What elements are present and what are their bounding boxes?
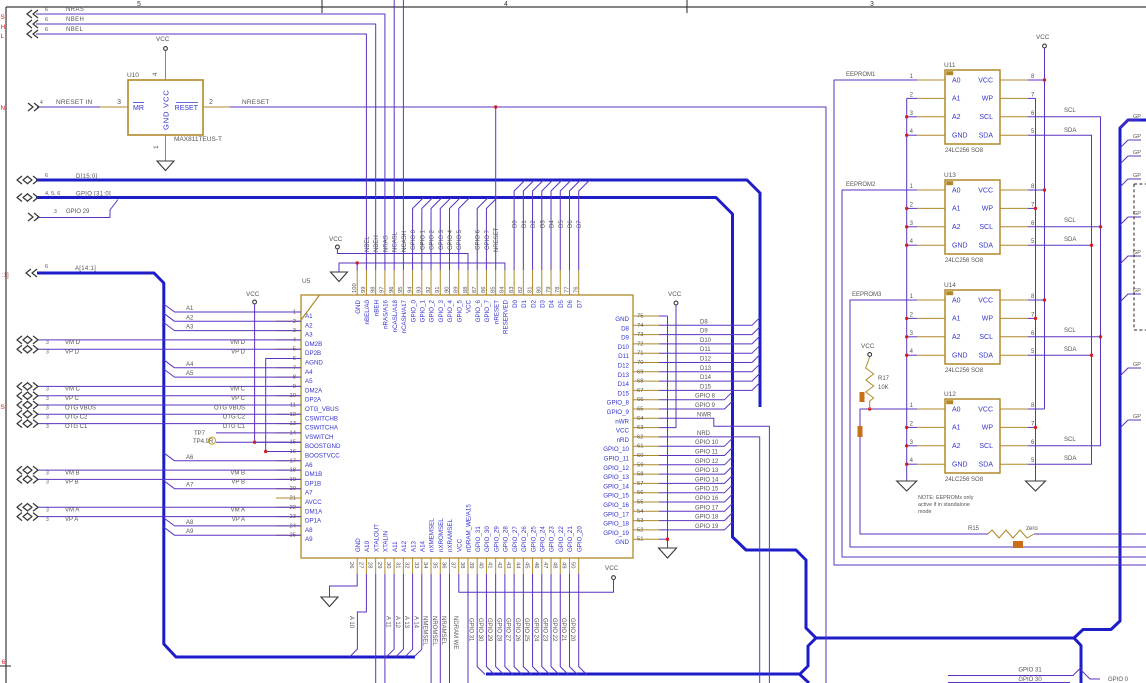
node strap junction [905, 225, 908, 228]
node vcc rail end [253, 441, 256, 444]
svg-text:24LC256 SO8: 24LC256 SO8 [945, 258, 984, 264]
svg-text:BOOSTGND: BOOSTGND [305, 443, 341, 450]
svg-text:72: 72 [637, 341, 643, 347]
svg-text:38: 38 [459, 562, 465, 568]
svg-text:NCASH: NCASH [402, 231, 408, 252]
wire A5 bus entry to U5 pin 8 [164, 369, 301, 377]
svg-text:80: 80 [537, 287, 543, 293]
wire NRESET from U10 pin2 to EEPROM column [230, 107, 826, 683]
wire SDA common [1028, 135, 1092, 464]
svg-text:VM A: VM A [65, 508, 79, 514]
svg-text:VCC: VCC [861, 343, 875, 350]
svg-text:NBEL: NBEL [365, 236, 371, 252]
svg-text:NDRAM WE: NDRAM WE [452, 616, 458, 649]
GPIO 29 chevrons [28, 213, 33, 221]
svg-text:A1: A1 [305, 313, 313, 320]
svg-text:D6: D6 [567, 299, 574, 307]
svg-text:75: 75 [637, 314, 643, 320]
svg-text:active if in standalone: active if in standalone [918, 502, 970, 508]
wire GPIO 30 entry bottom right [948, 682, 1070, 683]
svg-text:D9: D9 [621, 335, 629, 342]
svg-text:32: 32 [404, 562, 410, 568]
svg-text:3: 3 [117, 99, 121, 106]
svg-text:D0: D0 [512, 299, 519, 307]
svg-text:31: 31 [394, 562, 400, 568]
orange bar on A0 net [858, 426, 863, 437]
svg-text:5: 5 [137, 1, 141, 8]
svg-text:46: 46 [533, 562, 539, 568]
wire GPIO 0 entry bottom right [1081, 670, 1100, 679]
wire strap to eeprom pin [907, 97, 917, 99]
svg-text:D12: D12 [700, 357, 712, 363]
svg-text:3: 3 [46, 340, 49, 346]
svg-text:81: 81 [527, 287, 533, 293]
svg-text:GP: GP [1133, 150, 1141, 156]
svg-text:GPIO 13: GPIO 13 [695, 468, 719, 474]
svg-text:A0: A0 [952, 406, 961, 413]
wire U12 A0 net with R15 [860, 409, 988, 534]
node R17 junction [868, 407, 871, 410]
svg-text:SDA: SDA [979, 353, 994, 360]
svg-text:87: 87 [472, 287, 478, 293]
svg-text:GPIO_11: GPIO_11 [604, 456, 630, 463]
svg-text:100: 100 [352, 283, 358, 293]
svg-text:VP A: VP A [232, 517, 245, 523]
node strap junction [905, 317, 908, 320]
op U10 reset supervisor box [128, 80, 203, 135]
svg-text:A10: A10 [364, 540, 371, 552]
wire strap to eeprom pin [907, 463, 917, 465]
svg-text:GND: GND [952, 462, 968, 469]
U13 right pin stubs [1000, 189, 1028, 191]
wire strap to eeprom pin [907, 134, 917, 136]
wire pin37 VCC [459, 574, 614, 592]
svg-text:3: 3 [46, 415, 49, 421]
svg-text:EEPROM1: EEPROM1 [846, 72, 876, 78]
wire XTALOUT down [375, 574, 377, 683]
node agnd rail junction [264, 450, 267, 453]
svg-text:GPIO 3: GPIO 3 [439, 229, 445, 250]
bus GPIO left chevrons [17, 194, 22, 202]
wire EEPROM3 net [850, 300, 1146, 547]
svg-text:BOOSTVCC: BOOSTVCC [305, 453, 340, 460]
R17 orange bar [860, 392, 865, 402]
svg-text:GP: GP [1133, 114, 1141, 120]
svg-text:XTALIN: XTALIN [383, 531, 390, 552]
svg-text:27: 27 [357, 562, 363, 568]
svg-text:DM2A: DM2A [305, 387, 323, 394]
right edge bus entries GPIO [1120, 120, 1141, 128]
svg-text:GND: GND [952, 243, 968, 250]
svg-text:24LC256 SO8: 24LC256 SO8 [945, 148, 984, 154]
svg-text:GPIO_8: GPIO_8 [607, 400, 630, 407]
svg-text:D4: D4 [549, 299, 556, 307]
VM D chevrons [17, 336, 22, 344]
bus GPIO[31:0] horizontal and right vertical [36, 120, 1146, 638]
svg-text:VM D: VM D [65, 340, 81, 346]
wire GPIO_8 to GPIO bus [659, 392, 733, 400]
svg-text:RESET: RESET [175, 105, 199, 112]
svg-text:98: 98 [370, 287, 376, 293]
svg-text:D3: D3 [540, 299, 547, 307]
svg-text:51: 51 [637, 537, 643, 543]
svg-text:4, 5, 6: 4, 5, 6 [45, 191, 60, 197]
svg-text:A7: A7 [186, 483, 194, 489]
svg-text:GPIO_16: GPIO_16 [603, 502, 629, 509]
svg-text:SCL: SCL [979, 114, 993, 121]
wire NWR [659, 418, 769, 683]
wire NROMSEL down [439, 574, 441, 683]
svg-text:D2: D2 [530, 299, 537, 307]
svg-text:A11: A11 [392, 541, 399, 552]
U14 right pin stubs [1000, 299, 1028, 301]
svg-text:D7: D7 [576, 299, 583, 307]
svg-text:VP B: VP B [231, 480, 245, 486]
wire strap rail A1 A2 GND to ground [906, 98, 908, 481]
svg-text:D9: D9 [700, 329, 708, 335]
svg-text:D13: D13 [618, 372, 630, 379]
wire NBEL [36, 34, 366, 270]
wire A4 bus entry to U5 pin 7 [164, 360, 301, 368]
wire VP B [37, 478, 301, 480]
NBEL chevrons [27, 30, 32, 38]
wire OTG C2 [37, 413, 301, 415]
sheet border left [5, 7, 7, 683]
svg-text:3: 3 [46, 350, 49, 356]
svg-text:DM1A: DM1A [305, 508, 323, 515]
svg-text:H: H [1, 24, 6, 31]
wire vcc rail to pin16 BOOSTVCC [255, 304, 301, 442]
svg-text:GPIO 30: GPIO 30 [477, 618, 483, 642]
svg-text:4: 4 [504, 1, 508, 8]
svg-text:3: 3 [54, 209, 57, 215]
svg-text:91: 91 [435, 287, 441, 293]
svg-text:SCL: SCL [979, 224, 993, 231]
svg-text:MR: MR [133, 105, 144, 112]
svg-text:A2: A2 [952, 114, 961, 121]
R15 orange pad [1013, 541, 1023, 548]
svg-text:3: 3 [46, 470, 49, 476]
svg-text:GPIO 31: GPIO 31 [1018, 668, 1042, 674]
svg-text:A[14:1]: A[14:1] [75, 266, 96, 272]
wire VP C [37, 395, 301, 397]
svg-text:GPIO 11: GPIO 11 [695, 450, 719, 456]
U13 left pin stubs [917, 189, 945, 191]
svg-text:VCC: VCC [668, 291, 682, 298]
ground under strap rail [897, 481, 917, 491]
svg-text:VCC: VCC [156, 36, 170, 43]
wires D8..D15 to D bus [659, 317, 760, 325]
svg-text:58: 58 [637, 472, 643, 478]
wire GPIO_7 bus entry [486, 198, 497, 271]
svg-text:6: 6 [45, 264, 48, 270]
svg-text:34: 34 [422, 562, 428, 569]
ground under WP rail [1026, 481, 1046, 491]
svg-text:42: 42 [496, 562, 502, 568]
svg-text:A3: A3 [186, 325, 194, 331]
wires GPIO_31..GPIO_20 to bottom bus [477, 574, 485, 675]
wire A10 to A bus [350, 574, 367, 657]
svg-text:GPIO 19: GPIO 19 [695, 524, 719, 530]
svg-text:NRESET: NRESET [242, 99, 270, 106]
VP B chevrons [17, 475, 22, 483]
svg-text:GPIO 26: GPIO 26 [514, 618, 520, 642]
wire NRAMSEL down [449, 574, 451, 683]
svg-text:GPIO 7: GPIO 7 [485, 229, 491, 250]
svg-text:57: 57 [637, 481, 643, 487]
svg-text:SDA: SDA [979, 462, 994, 469]
svg-text:GPIO 15: GPIO 15 [695, 487, 719, 493]
svg-text:D4: D4 [550, 220, 556, 228]
svg-text:NOTE: EEPROMs only: NOTE: EEPROMs only [918, 495, 974, 501]
svg-text:nXROMSEL: nXROMSEL [438, 518, 445, 552]
svg-text:GPIO 16: GPIO 16 [695, 496, 719, 502]
VCC symbol for R17 [868, 353, 872, 357]
VM C chevrons [17, 382, 22, 390]
wire A9 bus entry to U5 pin 25 [164, 527, 301, 535]
svg-text:A2: A2 [952, 334, 961, 341]
node strap junction [905, 335, 908, 338]
svg-text:D11: D11 [700, 347, 711, 353]
svg-text:OTG VBUS: OTG VBUS [65, 405, 96, 411]
svg-text:3: 3 [46, 405, 49, 411]
svg-text:TP7: TP7 [194, 431, 206, 437]
wire A2 bus entry to U5 pin 2 [164, 313, 301, 321]
svg-text:A2: A2 [952, 443, 961, 450]
eeprom U12 box [945, 399, 1000, 473]
svg-text:A7: A7 [305, 490, 313, 497]
svg-text:GPIO_27: GPIO_27 [512, 526, 519, 552]
svg-text:D1: D1 [521, 299, 528, 307]
svg-text:GPIO_14: GPIO_14 [603, 483, 629, 490]
svg-text:D[15:0]: D[15:0] [76, 174, 97, 180]
node strap junction [905, 463, 908, 466]
wire U14 SCL [1028, 336, 1101, 338]
svg-text:nRD: nRD [617, 437, 630, 444]
bus A left chevrons [26, 269, 31, 277]
svg-text:88: 88 [463, 287, 469, 293]
svg-text:GND VCC: GND VCC [162, 89, 171, 130]
svg-text:SDA: SDA [1064, 237, 1076, 243]
svg-text:30: 30 [385, 562, 391, 568]
wire VM B [37, 469, 301, 471]
svg-text:SCL: SCL [1064, 437, 1076, 443]
VM A chevrons [17, 503, 22, 511]
wire A14 to A bus [414, 574, 422, 657]
eeprom U13 box [945, 180, 1000, 254]
svg-text:52: 52 [637, 527, 643, 533]
svg-text:OTG C1: OTG C1 [223, 424, 246, 430]
svg-text:A2: A2 [186, 315, 194, 321]
wire strap to eeprom pin [907, 317, 917, 319]
svg-text:GPIO 27: GPIO 27 [505, 618, 511, 642]
svg-text:2: 2 [209, 99, 213, 106]
svg-text:D13: D13 [700, 366, 712, 372]
svg-text:RESERVED: RESERVED [503, 299, 510, 333]
wire eeprom WP rail to ground [1035, 98, 1037, 481]
svg-text:U13: U13 [944, 172, 956, 179]
wire A12 to A bus [396, 574, 404, 657]
svg-text:GND: GND [615, 539, 629, 546]
bus continuation off bottom at x=808 [800, 675, 809, 683]
wire strap to eeprom pin [907, 226, 917, 228]
svg-text:24LC256 SO8: 24LC256 SO8 [945, 477, 984, 483]
wire EEPROM2 net [842, 190, 1146, 557]
svg-text:26: 26 [348, 562, 354, 568]
wire eeprom VCC rail [1044, 48, 1046, 409]
svg-text:GP: GP [1133, 362, 1141, 368]
VP A chevrons [17, 513, 22, 521]
border tick x=687 [686, 0, 688, 13]
svg-text:A12: A12 [401, 540, 408, 552]
svg-text:D7: D7 [577, 220, 583, 228]
svg-text:96: 96 [389, 287, 395, 293]
svg-text:VM B: VM B [230, 470, 245, 476]
wire A6 bus entry to U5 pin 17 [164, 453, 301, 461]
wire strap to eeprom pin [907, 426, 917, 428]
svg-text:35: 35 [431, 562, 437, 568]
NBEH chevrons [27, 20, 32, 28]
wire wp to eeprom pin7 [1028, 207, 1036, 209]
svg-text:61: 61 [637, 444, 643, 450]
svg-text:VCC: VCC [456, 538, 463, 552]
node strap junction [905, 207, 908, 210]
svg-text:GPIO_22: GPIO_22 [558, 526, 565, 552]
svg-text:47: 47 [542, 562, 548, 568]
svg-text:54: 54 [637, 509, 644, 515]
svg-text:A0: A0 [952, 187, 961, 194]
svg-text:97: 97 [380, 287, 386, 293]
VP C chevrons [17, 392, 22, 400]
svg-text:EEPROM2: EEPROM2 [846, 182, 876, 188]
svg-text:36: 36 [441, 562, 447, 568]
svg-text:A6: A6 [186, 455, 194, 461]
svg-text:D15: D15 [700, 384, 712, 390]
svg-text:mode: mode [918, 509, 932, 515]
wire OTG VBUS [37, 404, 301, 406]
svg-text:VCC: VCC [978, 297, 993, 304]
svg-text:DM2B: DM2B [305, 341, 322, 348]
svg-text:76: 76 [574, 287, 580, 293]
svg-text:VCC: VCC [329, 236, 343, 243]
node strap junction [905, 244, 908, 247]
svg-text:XTALOUT: XTALOUT [373, 524, 380, 552]
U5 pin1 chamfer [301, 295, 320, 320]
wire pin100 up [356, 263, 358, 270]
svg-text:D10: D10 [700, 338, 712, 344]
svg-text:74: 74 [637, 323, 644, 329]
svg-text:GPIO_20: GPIO_20 [576, 526, 583, 552]
svg-text:GPIO_9: GPIO_9 [607, 409, 630, 416]
svg-text:GP: GP [1133, 134, 1141, 140]
svg-text:GPIO 0: GPIO 0 [411, 229, 417, 250]
svg-text:GPIO_15: GPIO_15 [603, 493, 629, 500]
U10 pin 1 stub [165, 135, 167, 161]
svg-text:3: 3 [46, 480, 49, 486]
svg-text:A13: A13 [410, 540, 417, 552]
svg-text:NROMSEL: NROMSEL [431, 616, 437, 646]
svg-text:84: 84 [500, 286, 506, 293]
svg-text:GPIO_10: GPIO_10 [603, 446, 629, 453]
node strap junction [905, 354, 908, 357]
svg-text:GPIO 31: GPIO 31 [468, 618, 474, 642]
node strap junction [905, 134, 908, 137]
svg-text:VP D: VP D [231, 350, 246, 356]
wire VP D [37, 348, 301, 350]
svg-text:VCC: VCC [978, 77, 993, 84]
U11 left pin stubs [917, 79, 945, 81]
svg-text:GPIO 29: GPIO 29 [66, 209, 90, 215]
svg-text:3: 3 [46, 387, 49, 393]
svg-text:A1: A1 [952, 96, 961, 103]
NRESET IN chevrons [28, 103, 33, 111]
svg-text:VM B: VM B [65, 470, 80, 476]
wires GPIO_0..GPIO_5 bus entries [413, 198, 424, 271]
dashed selection box right edge [1134, 184, 1146, 330]
wire strap to eeprom pin [907, 116, 917, 118]
wire wp to eeprom pin7 [1028, 426, 1036, 428]
svg-text:GPIO 29: GPIO 29 [486, 618, 492, 642]
U14 left pin stubs [917, 299, 945, 301]
svg-text:39: 39 [468, 562, 474, 568]
U10 pin 4 stub [165, 51, 167, 81]
svg-text:A1: A1 [952, 316, 961, 323]
svg-text:GPIO 18: GPIO 18 [695, 515, 719, 521]
svg-text:SDA: SDA [979, 243, 994, 250]
wire NCASL vertical from sheet top [393, 0, 395, 270]
VCC symbol above U5 left area [253, 300, 257, 304]
wire A8 bus entry to U5 pin 24 [164, 518, 301, 526]
svg-text:28: 28 [367, 562, 373, 568]
svg-text:U14: U14 [944, 282, 956, 289]
svg-text:VCC: VCC [616, 428, 630, 435]
node wp rail junction [1034, 207, 1037, 210]
svg-text:D1: D1 [522, 220, 528, 228]
svg-text:NBEH: NBEH [374, 235, 380, 252]
svg-text:40: 40 [477, 562, 483, 568]
svg-text:GPIO_23: GPIO_23 [549, 526, 556, 552]
svg-text:D8: D8 [621, 325, 629, 332]
svg-text:D12: D12 [618, 363, 630, 370]
svg-text:NRAS: NRAS [383, 235, 389, 252]
ic U5 box [301, 295, 633, 558]
svg-text:63: 63 [637, 425, 643, 431]
U10 VCC symbol [164, 47, 168, 51]
wire XTALIN down [384, 574, 386, 683]
svg-text:A5: A5 [186, 371, 194, 377]
svg-text:GPIO 14: GPIO 14 [695, 477, 719, 483]
svg-text:S: S [1, 404, 6, 411]
svg-text:GPIO_17: GPIO_17 [603, 511, 629, 518]
resistor R15 zero ohm [988, 530, 1034, 538]
svg-text:D0: D0 [513, 220, 519, 228]
svg-text:10K: 10K [878, 385, 889, 391]
svg-text:R17: R17 [878, 376, 890, 382]
wire GND rail pins 75-51 [667, 316, 669, 539]
svg-text:1: 1 [153, 145, 160, 149]
svg-text:OTG_VBUS: OTG_VBUS [305, 406, 339, 413]
U12 right pin stubs [1000, 408, 1028, 410]
ground under U10 [157, 161, 174, 171]
svg-text:92: 92 [426, 287, 432, 293]
svg-text:A1: A1 [952, 425, 961, 432]
svg-text:GPIO_29: GPIO_29 [493, 526, 500, 552]
svg-text:U5: U5 [302, 278, 311, 285]
bus D[15:0] left chevrons [17, 176, 22, 184]
wire vcc to eeprom pin8 [1028, 189, 1045, 191]
svg-text:85: 85 [490, 287, 496, 293]
node strap junction [905, 115, 908, 118]
